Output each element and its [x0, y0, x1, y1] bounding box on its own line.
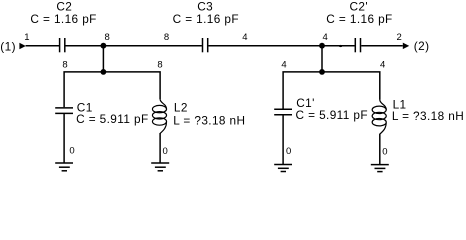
- svg-text:4: 4: [380, 60, 385, 71]
- small solder blob on wire: [339, 45, 342, 47]
- wire L2 to ground: [159, 133, 161, 163]
- wire C3 to C2': [208, 45, 354, 47]
- capacitor C3: [203, 38, 208, 52]
- svg-text:8: 8: [164, 32, 169, 43]
- svg-text:4: 4: [323, 32, 328, 43]
- capacitor C1: [55, 108, 73, 114]
- wire L1 to ground: [379, 134, 381, 165]
- svg-text:1: 1: [24, 32, 29, 43]
- svg-text:0: 0: [382, 147, 387, 158]
- svg-text:C = 5.911 pF: C = 5.911 pF: [296, 108, 368, 122]
- inductor L2: [152, 99, 166, 133]
- ground (L1): [371, 165, 389, 172]
- node 4 junction on main rail: [319, 43, 325, 75]
- wire left shunt rail: [64, 72, 160, 107]
- svg-text:C = 1.16 pF: C = 1.16 pF: [173, 12, 239, 26]
- port (2) output terminal: [403, 43, 409, 50]
- svg-text:C = 1.16 pF: C = 1.16 pF: [326, 12, 392, 26]
- svg-text:4: 4: [242, 32, 247, 43]
- wire C1 to ground: [63, 113, 65, 163]
- svg-text:4: 4: [281, 60, 286, 71]
- svg-text:(2): (2): [414, 39, 430, 53]
- svg-text:2: 2: [397, 32, 402, 43]
- svg-text:C = 5.911 pF: C = 5.911 pF: [76, 112, 148, 126]
- wire port1 to C2: [26, 45, 59, 47]
- ground (C1): [55, 163, 73, 171]
- capacitor C1': [274, 109, 292, 115]
- inductor L1: [372, 100, 386, 134]
- wire C2 to C3: [66, 45, 202, 47]
- wire C1' to ground: [282, 115, 284, 165]
- svg-text:0: 0: [69, 146, 74, 157]
- svg-text:8: 8: [62, 60, 67, 71]
- node 8 junction on main rail: [101, 43, 107, 75]
- wire C2' to port 2: [361, 45, 403, 47]
- svg-text:0: 0: [163, 146, 168, 157]
- svg-text:L = ?3.18 nH: L = ?3.18 nH: [173, 113, 245, 127]
- port (1) input terminal: [19, 43, 25, 50]
- ground (L2): [151, 163, 169, 171]
- svg-text:8: 8: [157, 60, 162, 71]
- wire right shunt rail: [283, 72, 380, 109]
- capacitor C2: [60, 38, 65, 52]
- svg-text:L = ?3.18 nH: L = ?3.18 nH: [392, 109, 464, 123]
- svg-text:L2: L2: [174, 100, 188, 114]
- ground (C1'): [274, 165, 292, 172]
- svg-text:(1): (1): [0, 39, 16, 53]
- svg-text:C = 1.16 pF: C = 1.16 pF: [30, 12, 96, 26]
- svg-text:0: 0: [286, 146, 291, 157]
- svg-text:8: 8: [105, 32, 110, 43]
- capacitor C2': [355, 38, 360, 52]
